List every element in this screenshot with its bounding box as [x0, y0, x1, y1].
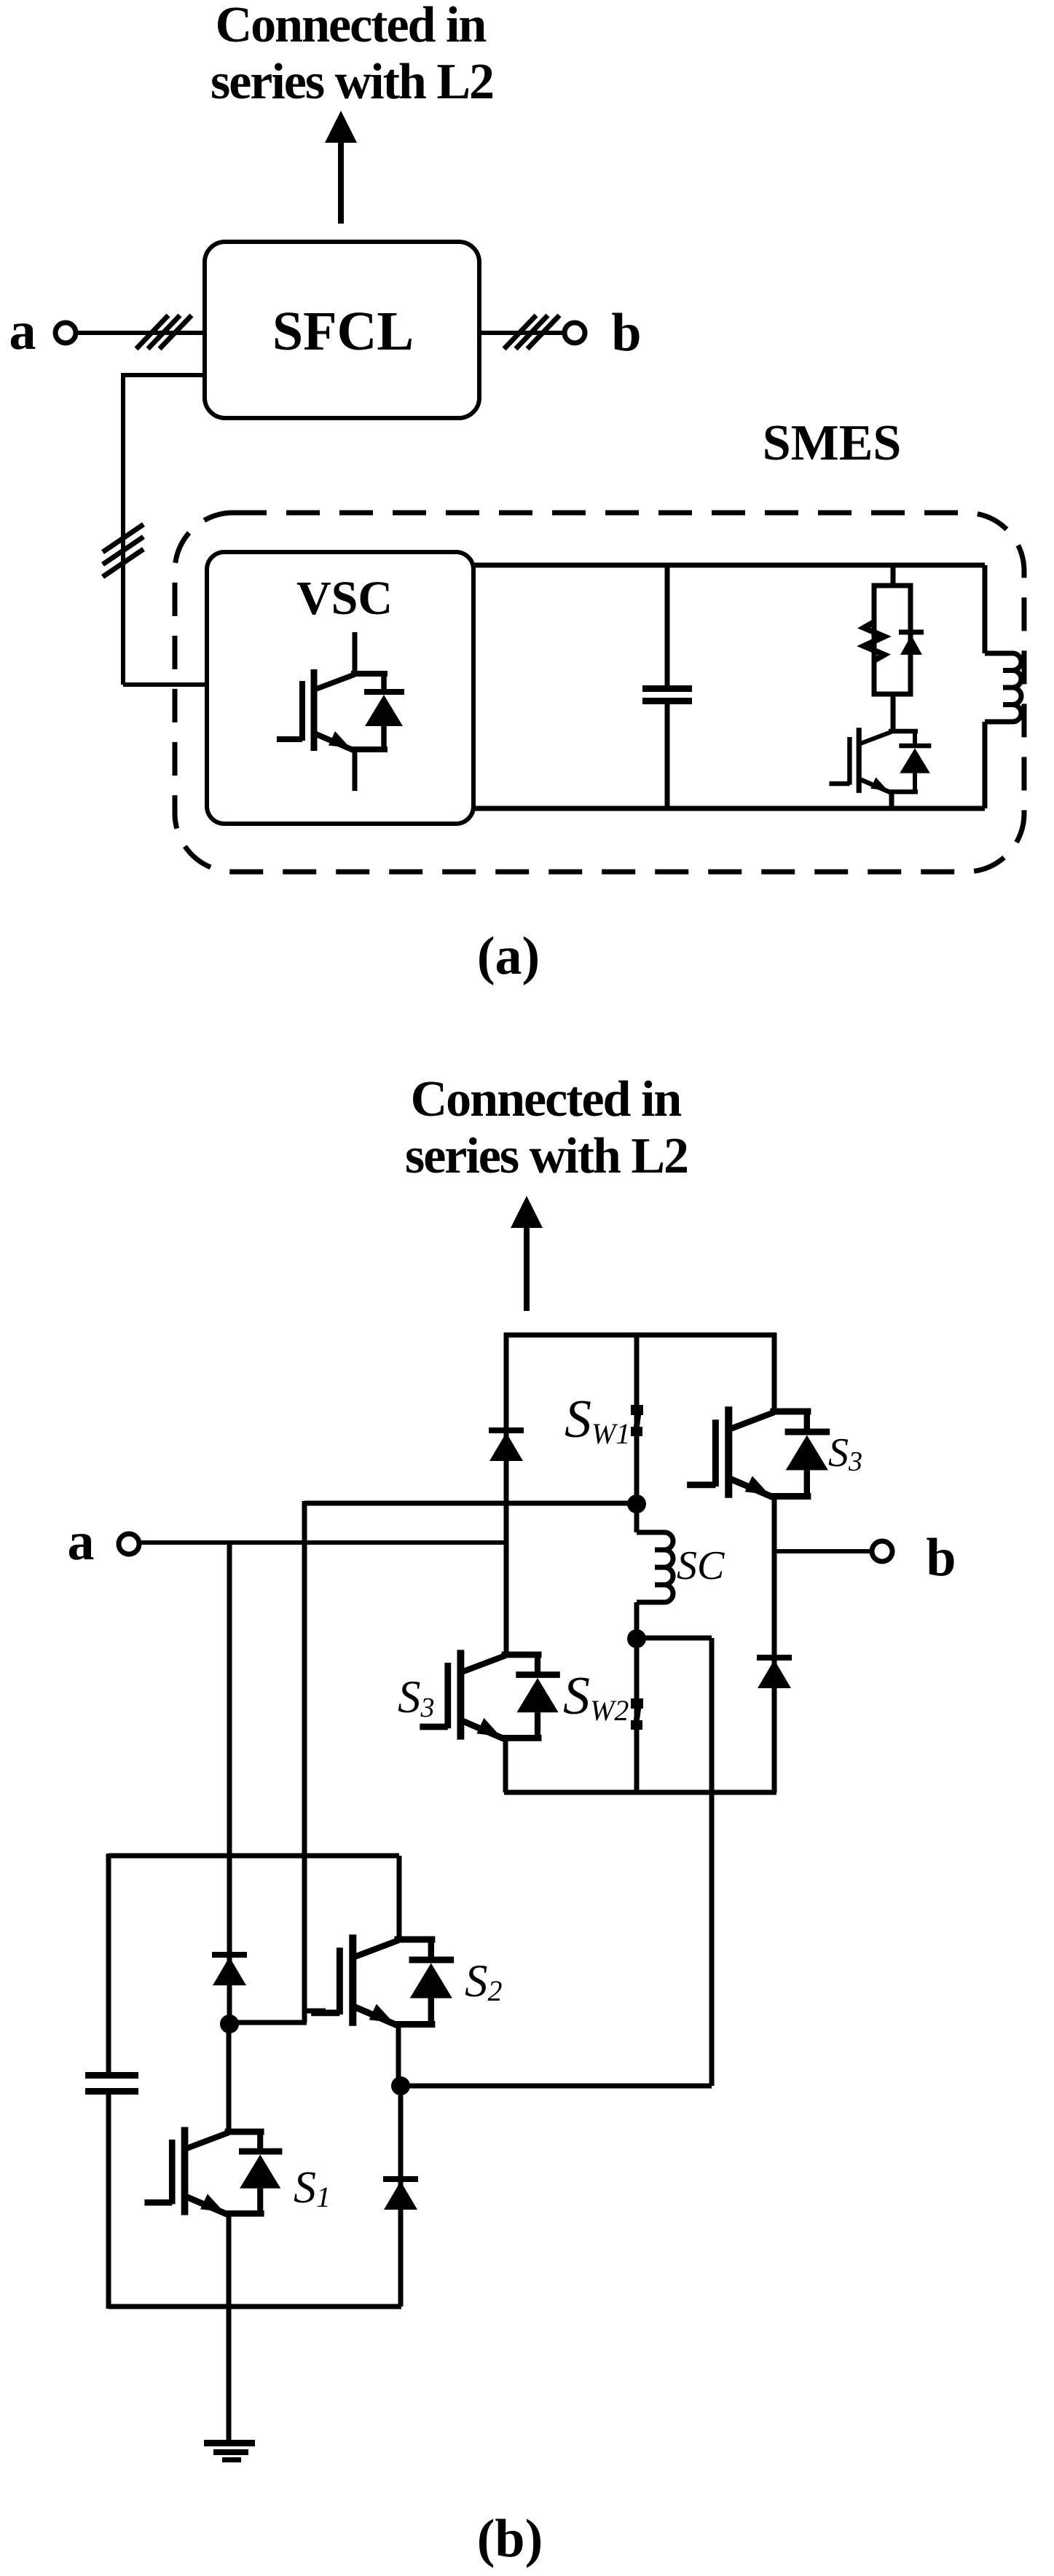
svg-text:series with L2: series with L2	[211, 54, 493, 110]
svg-text:Connected in: Connected in	[216, 0, 487, 53]
svg-text:a: a	[9, 302, 36, 361]
svg-text:b: b	[926, 1528, 956, 1588]
svg-text:SMES: SMES	[763, 415, 902, 471]
svg-text:b: b	[611, 303, 641, 363]
svg-text:Connected in: Connected in	[411, 1071, 682, 1127]
svg-text:(a): (a)	[477, 926, 540, 986]
svg-text:(b): (b)	[477, 2509, 543, 2569]
svg-text:series with L2: series with L2	[405, 1128, 688, 1184]
svg-text:SC: SC	[677, 1543, 725, 1588]
svg-text:a: a	[68, 1512, 95, 1572]
svg-text:VSC: VSC	[296, 572, 393, 625]
svg-text:SFCL: SFCL	[272, 301, 414, 362]
